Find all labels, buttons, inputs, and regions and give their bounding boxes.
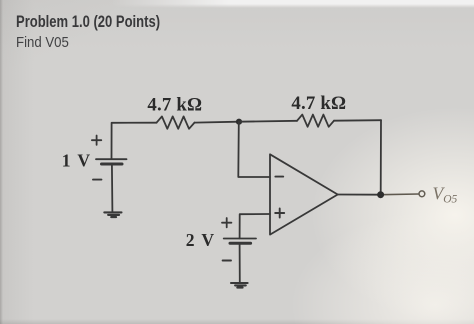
resistor R1 bbox=[157, 116, 195, 128]
op-amp U1 plus input symbol bbox=[275, 209, 284, 218]
battery V1 1V bottom plate bbox=[102, 163, 123, 166]
node output dot bbox=[377, 191, 384, 198]
terminal open circle V05 bbox=[419, 191, 425, 197]
label V1 minus sign bbox=[93, 179, 101, 181]
battery V2 2V bottom plate bbox=[230, 242, 251, 245]
op-amp U1 triangle bbox=[270, 154, 338, 234]
label V2 plus sign bbox=[222, 218, 231, 227]
ground G1 bbox=[104, 212, 121, 217]
wire: feedback drop to output node bbox=[380, 120, 382, 195]
wire: 2V battery to ground bbox=[239, 243, 241, 282]
wire: R2 to top-right corner bbox=[334, 119, 381, 122]
resistor R2 bbox=[297, 115, 334, 127]
wire: op-amp output to node bbox=[338, 194, 381, 196]
battery V2 2V top plate bbox=[224, 238, 256, 240]
ground G2 bbox=[231, 283, 248, 288]
subtitle Find V05 bbox=[16, 34, 69, 51]
svg-text:1 V: 1 V bbox=[62, 150, 92, 170]
wire: junction down to inverting input bbox=[238, 122, 270, 177]
battery V1 1V top plate bbox=[96, 158, 127, 160]
wire: junction to R2 bbox=[239, 120, 297, 123]
svg-text:2 V: 2 V bbox=[186, 230, 216, 250]
wire: left rail from 1V battery up and right to R1 bbox=[112, 123, 157, 159]
title text bbox=[16, 13, 160, 32]
op-amp U1 minus input symbol bbox=[275, 176, 283, 178]
label V2 minus sign bbox=[223, 260, 231, 262]
wire: 1V battery to ground bbox=[111, 164, 114, 212]
svg-text:VO5: VO5 bbox=[433, 184, 458, 206]
wire: R1 to junction node bbox=[195, 121, 240, 124]
label V1 plus sign bbox=[92, 136, 101, 145]
node A junction dot bbox=[236, 119, 242, 125]
wire: non-inverting input stub to 2V battery bbox=[240, 214, 270, 238]
wire: node to terminal bbox=[381, 193, 419, 196]
svg-text:4.7 kΩ: 4.7 kΩ bbox=[147, 95, 202, 116]
svg-text:4.7 kΩ: 4.7 kΩ bbox=[291, 93, 346, 114]
